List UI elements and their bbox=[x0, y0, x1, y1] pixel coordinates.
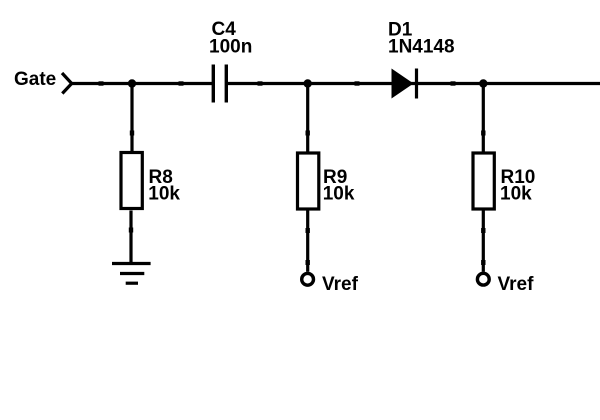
svg-text:1N4148: 1N4148 bbox=[388, 37, 455, 58]
svg-text:10k: 10k bbox=[323, 184, 355, 205]
svg-text:Vref: Vref bbox=[322, 274, 359, 295]
svg-text:10k: 10k bbox=[148, 184, 180, 205]
svg-text:100n: 100n bbox=[209, 36, 252, 57]
svg-text:10k: 10k bbox=[500, 184, 532, 205]
svg-text:Gate: Gate bbox=[14, 69, 56, 90]
svg-text:Vref: Vref bbox=[498, 274, 535, 295]
